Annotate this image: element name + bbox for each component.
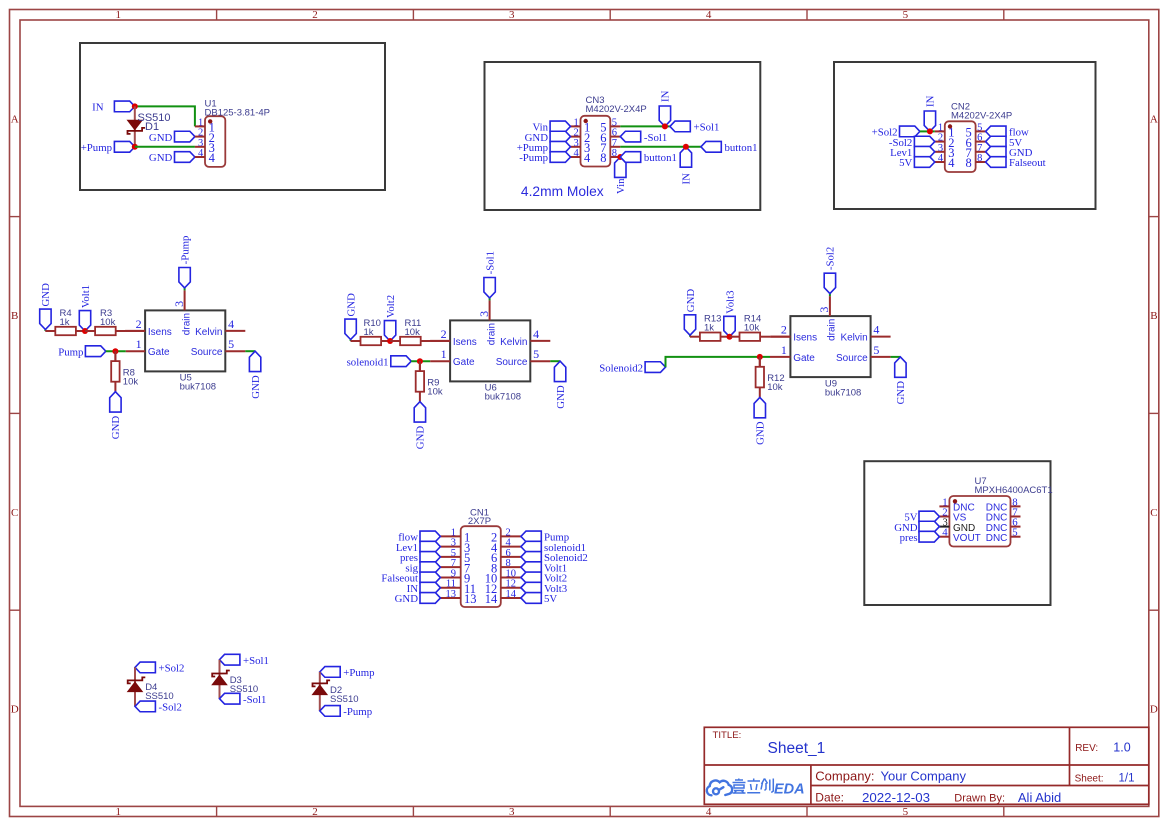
port Volt2 at CN1 pin 10 [521, 572, 567, 585]
svg-text:5: 5 [903, 9, 909, 21]
port GND at U7 pin3 [894, 521, 939, 534]
junction node Volt3 [727, 334, 733, 340]
U9 pin 5 stub [871, 356, 891, 358]
port Volt2 above R11 [384, 295, 397, 341]
CN1 pin numbers outside left [446, 527, 457, 600]
transistor module U5 body [145, 310, 225, 371]
svg-text:4: 4 [938, 153, 944, 164]
svg-text:14: 14 [485, 592, 498, 606]
svg-text:3: 3 [817, 307, 831, 313]
resistor R12 [756, 357, 764, 398]
port pres at U7 pin4 [900, 531, 940, 544]
resistor R13 [690, 333, 731, 341]
svg-text:-Pump: -Pump [519, 152, 548, 164]
svg-text:3: 3 [509, 9, 515, 21]
svg-text:4: 4 [706, 9, 712, 21]
svg-text:4.2mm Molex: 4.2mm Molex [521, 184, 604, 199]
port +Pump at CN3 pin3 [517, 141, 571, 154]
svg-text:8: 8 [612, 148, 617, 159]
ground flag at R13 [684, 289, 697, 337]
svg-text:buk7108: buk7108 [180, 382, 216, 393]
port -Sol1 [220, 693, 267, 706]
svg-text:13: 13 [446, 589, 457, 600]
junction node at CN3 pin5 [662, 123, 668, 129]
port -Pump [320, 706, 372, 719]
wire solenoid1 to U6 Gate [411, 360, 430, 362]
wire CN3 pin5 to +Sol1 [620, 125, 670, 127]
svg-text:4: 4 [198, 148, 204, 159]
svg-text:1: 1 [116, 806, 122, 818]
wire Solenoid2 to U9 Gate [666, 357, 771, 367]
svg-text:REV:: REV: [1075, 743, 1098, 754]
wire source to ground [550, 360, 560, 362]
svg-text:Volt1: Volt1 [80, 285, 92, 308]
U7 pin numbers right [1012, 496, 1018, 538]
port IN below CN3 pin7 [680, 147, 692, 185]
CN1 pin numbers outside right [506, 527, 517, 600]
svg-text:2: 2 [312, 9, 318, 21]
U7 pin 4 stub [939, 536, 949, 538]
U5 pin numbers [136, 301, 235, 351]
svg-text:2: 2 [781, 323, 787, 337]
diode D3 [212, 671, 230, 685]
svg-text:10k: 10k [767, 382, 783, 393]
port +Pump [81, 141, 135, 154]
resistor R11 [390, 337, 431, 345]
port IN [92, 101, 135, 114]
svg-text:-Pump: -Pump [179, 236, 191, 265]
port +Sol2 [872, 126, 920, 139]
svg-text:4: 4 [948, 156, 955, 170]
svg-text:+Pump: +Pump [81, 142, 112, 154]
U9 pin numbers [781, 307, 880, 357]
svg-text:-Sol2: -Sol2 [159, 702, 182, 714]
svg-text:Volt3: Volt3 [724, 290, 736, 313]
svg-text:IN: IN [924, 95, 936, 107]
U7 right pin stubs [1011, 506, 1021, 536]
frame column ticks top [217, 10, 1004, 21]
U9 pin 4 stub [871, 336, 891, 338]
port Solenoid2 [599, 362, 665, 375]
svg-text:1k: 1k [60, 317, 70, 328]
svg-text:Gate: Gate [793, 353, 815, 364]
resistor R14 [730, 333, 771, 341]
svg-text:Ali Abid: Ali Abid [1018, 790, 1061, 805]
wire D4 [134, 667, 136, 706]
port GND at CN1 pin 13 [395, 593, 441, 606]
svg-text:DNC: DNC [986, 533, 1008, 544]
connector CN2 [935, 121, 986, 172]
svg-text:Gate: Gate [148, 347, 170, 358]
U9 pin 3 stub [829, 296, 831, 316]
wire R3 to U5 Isens [126, 330, 145, 332]
port IN at CN1 pin 11 [407, 582, 441, 595]
svg-text:4: 4 [942, 527, 948, 539]
svg-text:IN: IN [659, 90, 671, 102]
wire D2 [319, 672, 321, 711]
svg-text:1k: 1k [704, 323, 714, 334]
svg-text:drain: drain [181, 313, 192, 335]
U9 pin names [793, 319, 868, 364]
port -Sol1 at drain [484, 251, 497, 300]
port -Sol2 at CN2 pin2 [889, 136, 935, 149]
svg-text:GND: GND [555, 385, 567, 409]
diode D1 [128, 120, 146, 134]
junction node at CN3 pin7 [683, 144, 689, 150]
port GND at U1 pin4 [149, 152, 195, 165]
title block border [704, 727, 1149, 804]
svg-text:Falseout: Falseout [1009, 157, 1046, 169]
EasyEDA logo cloud [707, 780, 732, 795]
svg-text:GND: GND [149, 132, 173, 144]
port Vin at CN3 pin1 [532, 121, 570, 134]
svg-text:GND: GND [685, 289, 697, 313]
svg-text:2022-12-03: 2022-12-03 [862, 790, 930, 805]
wire Pump to U5 Gate [106, 350, 126, 352]
svg-text:Pump: Pump [58, 346, 83, 358]
svg-text:GND: GND [395, 593, 419, 605]
svg-text:button1: button1 [725, 142, 758, 154]
port flow at CN1 pin 1 [398, 531, 440, 544]
ground flag at source [249, 351, 262, 399]
svg-text:Date:: Date: [815, 791, 844, 805]
U5 pin 5 stub [225, 350, 245, 352]
wire source to ground [245, 350, 255, 352]
svg-text:buk7108: buk7108 [825, 387, 861, 398]
svg-text:1: 1 [136, 337, 142, 351]
port button1 at CN3 pin7 [701, 141, 758, 154]
port +Sol1 [670, 121, 719, 134]
frame row ticks left [10, 217, 21, 611]
ground flag below R8 [110, 392, 123, 440]
svg-text:Solenoid2: Solenoid2 [599, 362, 643, 374]
svg-text:drain: drain [486, 323, 497, 345]
svg-text:2: 2 [312, 806, 318, 818]
port Volt1 at CN1 pin 8 [521, 562, 567, 575]
U6 pin 2 stub [430, 340, 450, 342]
U6 pin 3 stub [489, 300, 491, 320]
svg-text:-Sol1: -Sol1 [644, 132, 667, 144]
U1 pin numbers outside [198, 117, 204, 159]
wire source to ground [891, 356, 901, 358]
svg-text:2: 2 [136, 317, 142, 331]
ground flag below R12 [754, 397, 767, 445]
port IN above CN2 pin1 [924, 95, 936, 131]
svg-text:4: 4 [574, 148, 580, 159]
frame column ticks bottom [217, 806, 1004, 816]
svg-text:-Sol1: -Sol1 [243, 694, 266, 706]
ground flag at R10 [345, 293, 358, 341]
svg-text:1k: 1k [364, 327, 374, 338]
svg-text:Sheet:: Sheet: [1075, 774, 1104, 785]
svg-text:GND: GND [149, 152, 173, 164]
svg-text:SS510: SS510 [330, 694, 359, 705]
wire R11 to U6 Isens [431, 340, 450, 342]
port Volt3 above R14 [724, 290, 737, 336]
svg-text:+Pump: +Pump [343, 667, 374, 679]
svg-text:3: 3 [509, 806, 515, 818]
U7 pin numbers left [942, 496, 948, 538]
svg-text:B: B [11, 310, 18, 322]
svg-text:Gate: Gate [453, 357, 475, 368]
group box around U1 circuit [80, 43, 385, 190]
port Volt1 above R3 [79, 285, 92, 331]
wire +Sol2 to CN2 pin1 [920, 130, 935, 132]
ground flag at source [554, 361, 567, 409]
CN2 pin numbers outside left [938, 122, 944, 164]
junction node IN [132, 103, 138, 109]
svg-text:GND: GND [755, 421, 767, 445]
CN2 pin numbers inside right [966, 126, 972, 171]
svg-text:8: 8 [977, 153, 982, 164]
junction node at CN2 pin1 [927, 128, 933, 134]
frame column labels top [116, 9, 909, 21]
svg-text:M4202V-2X4P: M4202V-2X4P [586, 104, 647, 115]
svg-text:MPXH6400AC6T1: MPXH6400AC6T1 [975, 485, 1053, 496]
group box around CN2 circuit [834, 62, 1096, 209]
port flow at CN2 pin5 [986, 126, 1029, 139]
U5 pin 3 stub [184, 290, 186, 310]
svg-text:14: 14 [506, 589, 517, 600]
svg-text:GND: GND [250, 375, 262, 399]
frame row ticks right [1149, 217, 1159, 611]
CN3 pin numbers inside right [600, 121, 606, 166]
port +Pump [320, 667, 375, 680]
svg-text:A: A [1150, 113, 1158, 125]
port Vin below CN3 pin8 [615, 157, 627, 194]
svg-text:+Sol1: +Sol1 [694, 122, 720, 134]
diode D4 [128, 677, 146, 691]
svg-text:8: 8 [966, 156, 972, 170]
svg-text:3: 3 [172, 301, 186, 307]
svg-text:4: 4 [533, 327, 539, 341]
port Volt3 at CN1 pin 12 [521, 582, 567, 595]
junction node +Pump [132, 144, 138, 150]
svg-text:5: 5 [1012, 527, 1017, 539]
wire gate to R8 [114, 351, 116, 361]
resistor R3 [85, 327, 126, 335]
svg-text:A: A [11, 113, 19, 125]
ground flag at R4 [40, 283, 53, 331]
junction node Volt1 [82, 328, 88, 334]
U6 pin names [453, 323, 528, 368]
port 5V at U7 pin2 [904, 511, 939, 524]
svg-text:4: 4 [584, 151, 591, 165]
component U7 [939, 496, 1010, 547]
connector CN3 [571, 116, 621, 167]
junction node Solenoid2 gate [757, 354, 763, 360]
port -Pump at drain [179, 236, 192, 291]
port GND at CN3 pin2 [525, 131, 571, 144]
port GND at U1 pin2 [149, 131, 195, 144]
port IN above CN3 pin5 [659, 90, 671, 126]
svg-text:2: 2 [441, 327, 447, 341]
svg-text:10k: 10k [100, 317, 116, 328]
wire D3 [219, 660, 221, 699]
svg-text:Isens: Isens [793, 333, 817, 344]
group box around CN3 circuit [485, 62, 761, 210]
frame row labels right [1150, 113, 1158, 715]
svg-text:5: 5 [903, 806, 909, 818]
port Pump at CN1 pin 2 [521, 531, 569, 544]
port solenoid1 at CN1 pin 4 [521, 541, 586, 554]
svg-text:button1: button1 [644, 152, 677, 164]
U7 pin names [953, 503, 1007, 544]
svg-text:drain: drain [827, 319, 838, 341]
svg-text:Kelvin: Kelvin [195, 327, 222, 338]
port -Pump at CN3 pin4 [519, 152, 570, 165]
wire diode branch [134, 106, 136, 146]
connector CN1 [440, 526, 521, 607]
CN2 pin numbers outside right [977, 122, 982, 164]
port Pump [58, 346, 106, 359]
U9 pin 2 stub [770, 336, 790, 338]
U6 pin 4 stub [530, 340, 550, 342]
port Lev1 at CN2 pin3 [890, 146, 935, 159]
svg-text:10k: 10k [405, 327, 421, 338]
svg-text:Isens: Isens [148, 327, 172, 338]
U5 pin names [148, 313, 223, 358]
wire R14 to U9 Isens [770, 336, 790, 338]
svg-text:EDA: EDA [774, 782, 805, 798]
wire gate to R12 [759, 357, 761, 367]
diode D2 [313, 680, 331, 694]
port +Sol2 [135, 662, 184, 675]
svg-text:IN: IN [92, 102, 104, 114]
resistor R8 [111, 351, 119, 392]
svg-text:Sheet_1: Sheet_1 [768, 740, 826, 757]
svg-text:Kelvin: Kelvin [500, 337, 527, 348]
junction node at CN3 pin8 [617, 154, 623, 160]
svg-text:8: 8 [600, 151, 606, 165]
svg-text:Kelvin: Kelvin [840, 333, 867, 344]
frame column labels bottom [116, 806, 909, 818]
svg-text:pres: pres [900, 532, 918, 544]
svg-text:1.0: 1.0 [1113, 740, 1130, 754]
svg-text:+Sol2: +Sol2 [159, 663, 185, 675]
svg-text:1/1: 1/1 [1119, 773, 1135, 785]
CN2 pin numbers inside left [948, 126, 955, 171]
wire IN to U1 pin1 [135, 106, 195, 126]
port 5V at CN2 pin4 [899, 157, 935, 170]
svg-text:Volt2: Volt2 [385, 295, 397, 318]
svg-text:+Sol1: +Sol1 [243, 655, 269, 667]
ground flag below R9 [414, 402, 427, 450]
U1 pin numbers inside [209, 121, 216, 166]
svg-text:Source: Source [496, 357, 528, 368]
svg-text:5: 5 [228, 337, 234, 351]
port sig at CN1 pin 7 [405, 562, 440, 575]
transistor module U6 body [450, 320, 530, 381]
CN3 pin numbers inside left [584, 121, 591, 166]
wire +Pump to U1 pin3 [135, 146, 195, 148]
port Lev1 at CN1 pin 3 [396, 541, 441, 554]
svg-text:5V: 5V [899, 157, 912, 169]
U5 pin 4 stub [225, 330, 245, 332]
port +Sol1 [220, 654, 269, 667]
port -Sol2 at drain [824, 247, 837, 296]
U7 pin 3 stub black [939, 526, 949, 528]
svg-text:4: 4 [706, 806, 712, 818]
svg-text:-Sol1: -Sol1 [484, 251, 496, 274]
svg-text:-Sol2: -Sol2 [825, 247, 837, 270]
svg-text:1: 1 [781, 343, 787, 357]
U6 pin numbers [441, 311, 539, 361]
port button1 at CN3 pin8 [620, 152, 677, 165]
svg-text:D: D [1150, 704, 1158, 716]
svg-text:4: 4 [228, 317, 234, 331]
svg-text:3: 3 [477, 311, 491, 317]
group box around U7 circuit [864, 461, 1050, 605]
svg-text:5: 5 [873, 343, 879, 357]
svg-text:GND: GND [110, 416, 122, 440]
resistor R4 [45, 327, 86, 335]
port 5V at CN2 pin6 [986, 136, 1023, 149]
svg-text:5V: 5V [544, 593, 557, 605]
wire CN3 pin7 to button1 [620, 146, 701, 148]
svg-text:GND: GND [895, 381, 907, 405]
port -Sol2 [135, 701, 182, 714]
port 5V at CN1 pin 14 [521, 593, 557, 606]
svg-text:C: C [11, 507, 18, 519]
svg-text:VOUT: VOUT [953, 533, 981, 544]
svg-text:Drawn By:: Drawn By: [954, 793, 1005, 805]
port Falseout at CN1 pin 9 [381, 572, 440, 585]
svg-text:GND: GND [40, 283, 52, 307]
svg-text:Isens: Isens [453, 337, 477, 348]
port solenoid1 [347, 356, 412, 369]
svg-text:solenoid1: solenoid1 [347, 356, 389, 368]
junction node Pump gate [112, 348, 118, 354]
svg-text:IN: IN [680, 173, 692, 185]
svg-text:10k: 10k [427, 386, 443, 397]
junction node solenoid1 gate [417, 358, 423, 364]
frame row labels left [11, 113, 19, 715]
svg-text:Your Company: Your Company [881, 769, 967, 784]
wire gate to R9 [419, 361, 421, 371]
junction node Volt2 [387, 338, 393, 344]
CN3 pin numbers outside left [574, 117, 580, 159]
transistor module U9 body [790, 316, 870, 377]
port pres at CN1 pin 5 [400, 552, 440, 565]
svg-text:C: C [1150, 507, 1157, 519]
port Falseout at CN2 pin8 [986, 157, 1046, 170]
U5 pin 2 stub [125, 330, 145, 332]
svg-text:buk7108: buk7108 [485, 392, 521, 403]
svg-text:4: 4 [873, 323, 879, 337]
svg-text:Company:: Company: [815, 769, 874, 784]
svg-text:B: B [1150, 310, 1157, 322]
svg-text:1: 1 [441, 347, 447, 361]
svg-text:10k: 10k [744, 323, 760, 334]
EasyEDA logo hanzi [733, 779, 774, 794]
svg-text:4: 4 [209, 151, 216, 165]
svg-text:Source: Source [191, 347, 223, 358]
connector U1 [195, 116, 225, 167]
CN1 pin numbers inside right [485, 531, 498, 607]
resistor R10 [351, 337, 392, 345]
port Solenoid2 at CN1 pin 6 [521, 552, 588, 565]
CN1 pin numbers inside left [464, 531, 477, 607]
wire R4 to R3 [84, 330, 87, 332]
svg-text:Source: Source [836, 353, 868, 364]
svg-text:Vin: Vin [615, 178, 627, 194]
svg-text:DB125-3.81-4P: DB125-3.81-4P [205, 108, 270, 119]
svg-text:13: 13 [464, 592, 477, 606]
svg-text:1: 1 [116, 9, 122, 21]
ground flag at source [895, 357, 908, 405]
U7 pin1 marker [953, 499, 957, 503]
